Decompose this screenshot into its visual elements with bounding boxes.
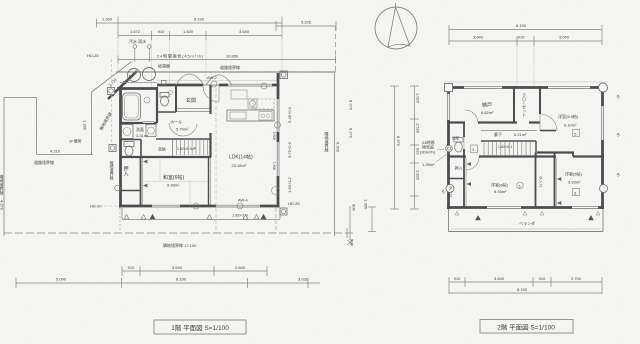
svg-text:5.090: 5.090 xyxy=(56,277,67,282)
2F outer wall left xyxy=(447,86,450,209)
wc2 walls xyxy=(120,139,142,141)
svg-text:ベランダ: ベランダ xyxy=(519,220,535,226)
diagonal wall hatching xyxy=(111,93,114,96)
svg-text:洋室(6帖): 洋室(6帖) xyxy=(565,171,583,177)
svg-text:3.31m²: 3.31m² xyxy=(136,133,149,138)
wall under west room xyxy=(537,151,574,153)
svg-text:道路境界線: 道路境界線 xyxy=(220,64,240,70)
wall hall/washitsu xyxy=(120,156,212,158)
door arc corridor to bedroom-left xyxy=(466,157,479,170)
svg-text:ホール: ホール xyxy=(170,120,182,125)
window left wall xyxy=(447,94,450,120)
svg-text:900: 900 xyxy=(352,204,357,211)
diagonal wall xyxy=(108,71,137,99)
svg-text:3: 3 xyxy=(472,148,474,152)
svg-text:1.330: 1.330 xyxy=(83,120,88,131)
svg-text:9.93m²: 9.93m² xyxy=(167,183,180,188)
svg-text:収納: 収納 xyxy=(158,147,166,152)
tatami lines xyxy=(142,181,208,183)
stairs tag box xyxy=(471,145,478,153)
kitchen counter xyxy=(227,110,274,121)
kitchen equip tag xyxy=(248,99,257,108)
svg-text:9.93m²: 9.93m² xyxy=(568,180,581,185)
svg-text:5.79m²: 5.79m² xyxy=(176,127,189,132)
2F left dim line inner xyxy=(414,86,416,209)
svg-text:2F便所: 2F便所 xyxy=(69,138,82,144)
dim 10.869 line xyxy=(118,59,336,61)
svg-text:隣地境界線: 隣地境界線 xyxy=(325,131,330,152)
svg-text:ろ: ろ xyxy=(441,188,445,194)
2F bottom dim row A xyxy=(449,281,602,283)
svg-text:押入: 押入 xyxy=(455,165,463,171)
site boundary left xyxy=(3,97,5,236)
road boundary line top xyxy=(116,71,336,73)
meter box lower xyxy=(109,145,116,152)
genkan step lines xyxy=(177,108,210,110)
1F outer wall top (main) xyxy=(157,84,280,87)
hall door arc left xyxy=(169,123,183,136)
stairs treads xyxy=(176,140,178,155)
svg-text:3.640: 3.640 xyxy=(239,29,250,34)
window tag circles xyxy=(211,81,217,87)
svg-text:ろ: ろ xyxy=(616,93,620,99)
washitsu/ldk sliding doors xyxy=(208,157,210,206)
site boundary diagonal xyxy=(92,62,132,92)
svg-text:隣地境界線: 隣地境界線 xyxy=(0,174,5,195)
svg-text:9.10m²: 9.10m² xyxy=(564,123,577,128)
dim row2 line xyxy=(118,35,282,37)
svg-text:8.190: 8.190 xyxy=(194,17,205,22)
dim 5.226 line xyxy=(276,25,336,27)
svg-text:給湯器: 給湯器 xyxy=(158,63,170,69)
washing machine xyxy=(146,125,156,137)
entrance door gap xyxy=(203,83,219,86)
vanity xyxy=(121,125,133,139)
window bottom wall right room xyxy=(572,206,598,209)
window in bottom wall washitsu xyxy=(152,204,180,207)
oshiire 2f sliding door xyxy=(465,158,467,206)
title box 2F xyxy=(480,320,573,334)
svg-text:玄関: 玄関 xyxy=(186,97,196,104)
svg-text:910: 910 xyxy=(539,276,546,281)
svg-text:1.672: 1.672 xyxy=(130,29,141,34)
fan symbol xyxy=(446,145,453,152)
dashed reference vertical xyxy=(215,88,217,233)
svg-text:1.260: 1.260 xyxy=(102,17,113,22)
shower corner xyxy=(144,97,150,103)
corridor wall lower xyxy=(447,155,556,157)
svg-text:6: 6 xyxy=(574,191,576,195)
svg-text:1階 平面図 S=1/100: 1階 平面図 S=1/100 xyxy=(171,323,229,332)
svg-text:900: 900 xyxy=(350,239,355,246)
svg-text:隣地境界線 17.100: 隣地境界線 17.100 xyxy=(163,242,197,248)
oshiire walls xyxy=(140,157,142,206)
svg-text:10.869: 10.869 xyxy=(226,54,239,59)
toilet room right wall xyxy=(175,85,177,112)
sewage pit xyxy=(133,45,137,49)
balcony xyxy=(448,209,450,232)
wc 2f tank xyxy=(454,138,463,143)
svg-text:1.65+1.2: 1.65+1.2 xyxy=(287,176,292,192)
middle closet walls xyxy=(535,153,537,208)
svg-text:3.640: 3.640 xyxy=(172,265,183,270)
svg-text:タンス: タンス xyxy=(448,185,453,198)
left wall meter circle xyxy=(115,185,121,191)
svg-text:8.190: 8.190 xyxy=(517,287,528,292)
wall cabinet dashed xyxy=(253,99,274,109)
guide verticals 2F xyxy=(516,46,518,86)
svg-text:ろ: ろ xyxy=(616,171,620,177)
svg-text:AW-2: AW-2 xyxy=(207,75,218,80)
svg-text:ろ: ろ xyxy=(616,131,620,137)
stairs top wall xyxy=(156,138,211,140)
svg-text:AW-4: AW-4 xyxy=(238,198,249,203)
svg-text:LDK(14帖): LDK(14帖) xyxy=(229,154,253,161)
svg-text:1.820: 1.820 xyxy=(183,29,194,34)
svg-text:6.62m²: 6.62m² xyxy=(481,110,494,115)
1F outer wall bottom xyxy=(119,205,280,208)
balcony triangles xyxy=(476,216,481,221)
right dashed vertical xyxy=(335,26,337,73)
svg-text:5.226: 5.226 xyxy=(301,20,312,25)
svg-text:押入: 押入 xyxy=(123,165,129,176)
porch tick marks xyxy=(124,215,129,220)
HD-25 leader xyxy=(111,59,113,152)
site boundary top-left horizontal xyxy=(37,154,94,156)
2F left dim line outer xyxy=(394,86,396,209)
window circle left wall xyxy=(446,185,454,193)
kitchen sink xyxy=(230,112,246,119)
bedroom left tag xyxy=(517,182,523,188)
2F outer wall right xyxy=(601,86,604,209)
stair void line xyxy=(481,130,537,132)
corridor wall upper xyxy=(447,121,540,123)
svg-text:9.75+0.9: 9.75+0.9 xyxy=(287,141,292,157)
hall door arc right xyxy=(183,124,197,136)
wall hall/ldk vertical xyxy=(209,85,211,157)
svg-text:910: 910 xyxy=(518,35,525,40)
entrance door arc xyxy=(203,86,219,102)
approach planting arc right xyxy=(206,75,232,85)
stairs 2f xyxy=(481,140,536,142)
svg-text:910: 910 xyxy=(416,148,421,155)
porch deck outline xyxy=(122,219,280,221)
svg-text:クローゼット: クローゼット xyxy=(522,92,527,117)
svg-text:廊下: 廊下 xyxy=(494,131,502,137)
balcony depth dim xyxy=(371,207,373,232)
west room 5.5 tag xyxy=(573,130,580,137)
svg-text:1.82×9.1UP: 1.82×9.1UP xyxy=(177,147,197,151)
svg-text:AW-2: AW-2 xyxy=(273,132,277,140)
svg-text:6.190: 6.190 xyxy=(176,277,187,282)
dim row1 line xyxy=(97,22,283,24)
svg-text:洗面: 洗面 xyxy=(136,126,144,132)
window bottom wall left room xyxy=(487,206,521,209)
bottom dim row B xyxy=(16,282,320,284)
window top wall right xyxy=(548,86,590,89)
oshiire sliding door xyxy=(141,158,143,205)
svg-text:4.210: 4.210 xyxy=(50,149,61,154)
right boundary vertical xyxy=(334,73,336,236)
pole symbol bottom right xyxy=(280,208,287,215)
west room door arc xyxy=(540,114,557,131)
svg-text:汚水 雨水: 汚水 雨水 xyxy=(129,38,146,44)
window in bottom wall ldk xyxy=(216,204,260,207)
tank platform xyxy=(120,82,157,84)
site boundary top-left vertical xyxy=(36,97,38,155)
svg-text:4.270: 4.270 xyxy=(0,200,5,211)
nando/closet wall xyxy=(513,86,515,123)
eave line 1F xyxy=(157,80,278,82)
svg-text:3.640: 3.640 xyxy=(473,35,484,40)
svg-text:6.370: 6.370 xyxy=(349,128,354,139)
svg-text:1.28m²: 1.28m² xyxy=(422,162,435,167)
svg-text:HD-25: HD-25 xyxy=(288,201,300,206)
window in right wall upper xyxy=(276,99,279,132)
kitchen stove box xyxy=(259,112,272,121)
title box 1F xyxy=(154,320,246,334)
wc2 bowl xyxy=(125,146,133,156)
wc 2f walls xyxy=(463,123,465,157)
svg-text:24時間換気(45m³/h): 24時間換気(45m³/h) xyxy=(157,53,204,59)
window in top wall kitchen xyxy=(228,83,272,86)
svg-text:2階 平面図 S=1/100: 2階 平面図 S=1/100 xyxy=(497,323,555,332)
svg-text:HD-20: HD-20 xyxy=(90,204,102,209)
window circle right wall xyxy=(600,185,608,193)
svg-text:1.820: 1.820 xyxy=(416,170,421,181)
svg-text:3.640: 3.640 xyxy=(494,276,505,281)
stairs left partition xyxy=(172,139,174,156)
utility pole symbol xyxy=(280,71,288,79)
svg-text:洋室(5.5帖): 洋室(5.5帖) xyxy=(558,113,579,119)
svg-text:23.18m²: 23.18m² xyxy=(232,163,247,168)
svg-text:1.620: 1.620 xyxy=(416,93,421,104)
bottom boundary dashed xyxy=(4,232,355,234)
boundary tick right xyxy=(346,228,348,238)
water heater tank 2 xyxy=(143,68,156,81)
svg-text:6.21m²: 6.21m² xyxy=(514,132,527,137)
corner post top-right circle xyxy=(599,83,608,92)
toilet room bottom wall xyxy=(157,111,176,113)
2F bottom wall xyxy=(447,206,604,209)
dim 900 side line xyxy=(349,206,351,240)
oshiire 2f wall xyxy=(463,157,465,208)
svg-text:1.365: 1.365 xyxy=(364,199,369,210)
eave line 2F xyxy=(443,81,608,83)
svg-text:便所: 便所 xyxy=(452,136,460,141)
window top wall left xyxy=(464,86,502,89)
svg-text:1.82+2.0: 1.82+2.0 xyxy=(232,213,248,218)
svg-text:HD-25: HD-25 xyxy=(87,53,99,58)
bathroom walls xyxy=(120,122,158,124)
meter box upper xyxy=(108,88,115,95)
1F outer wall right xyxy=(277,73,280,208)
svg-text:910: 910 xyxy=(128,265,135,270)
rain pit xyxy=(148,45,152,49)
svg-text:3.640: 3.640 xyxy=(559,35,570,40)
2F dim row2 xyxy=(449,40,602,42)
bathtub xyxy=(123,93,141,120)
2F bottom dim row B xyxy=(449,292,602,294)
2F outer wall top xyxy=(447,86,604,89)
svg-text:隣地境界線: 隣地境界線 xyxy=(109,160,114,180)
svg-text:道路境界線: 道路境界線 xyxy=(34,159,54,165)
svg-text:2.640: 2.640 xyxy=(235,265,246,270)
svg-text:和室(6帖): 和室(6帖) xyxy=(163,174,184,181)
bedroom right tag xyxy=(573,189,580,196)
svg-text:(30m³/h): (30m³/h) xyxy=(420,150,436,155)
svg-text:1.520: 1.520 xyxy=(416,123,421,134)
nando door arc xyxy=(465,110,478,123)
svg-text:納戸: 納戸 xyxy=(482,102,492,109)
middle closet sliding door xyxy=(555,158,557,206)
svg-text:8.370: 8.370 xyxy=(349,100,354,111)
1F outer wall top (bath block) xyxy=(118,87,157,90)
toilet bowl xyxy=(161,96,169,106)
svg-text:AW-1: AW-1 xyxy=(273,162,277,170)
2F dim row1 xyxy=(449,29,602,31)
1F outer wall left xyxy=(119,87,122,208)
svg-text:6.370: 6.370 xyxy=(396,136,401,147)
site boundary east of notch xyxy=(91,92,93,155)
svg-text:910: 910 xyxy=(454,276,461,281)
wc2 tank xyxy=(124,142,134,147)
svg-text:タンス: タンス xyxy=(538,175,543,188)
window in right wall lower xyxy=(276,142,279,176)
svg-text:9.93m²: 9.93m² xyxy=(494,189,507,194)
water heater tank 1 xyxy=(128,69,141,82)
toilet tank xyxy=(160,93,169,98)
wc 2f bowl xyxy=(455,142,463,152)
window right wall xyxy=(601,106,604,140)
approach planting arc left xyxy=(176,74,204,85)
svg-text:3.031: 3.031 xyxy=(298,277,309,282)
svg-text:1.82×9.1: 1.82×9.1 xyxy=(498,145,512,149)
bath door xyxy=(143,120,154,123)
svg-text:8.190: 8.190 xyxy=(516,23,527,28)
guide verticals xyxy=(117,40,119,71)
corner post top-left xyxy=(445,84,453,92)
svg-text:6.300: 6.300 xyxy=(336,142,341,153)
compass xyxy=(375,7,417,49)
svg-text:6.45+0.9: 6.45+0.9 xyxy=(287,106,292,122)
refrigerator xyxy=(231,90,247,99)
closet/west room wall xyxy=(539,86,541,114)
svg-text:6: 6 xyxy=(519,184,521,188)
svg-text:2.700: 2.700 xyxy=(571,276,582,281)
compass needle xyxy=(388,7,410,47)
svg-text:洋室(6帖): 洋室(6帖) xyxy=(491,182,509,188)
bottom dim row A xyxy=(122,270,267,272)
svg-text:910: 910 xyxy=(158,29,165,34)
